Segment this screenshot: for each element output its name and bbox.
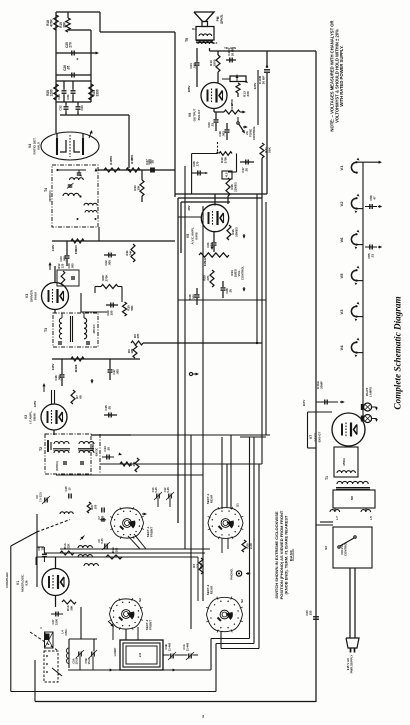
svg-text:140V: 140V xyxy=(51,245,55,252)
svg-text:22MEG: 22MEG xyxy=(234,181,238,192)
svg-text:150: 150 xyxy=(110,310,114,315)
svg-text:20 MF: 20 MF xyxy=(231,48,235,56)
svg-text:C33: C33 xyxy=(80,105,84,111)
svg-text:V7: V7 xyxy=(309,435,313,439)
svg-text:39K: 39K xyxy=(63,21,67,28)
svg-text:56K: 56K xyxy=(130,304,134,310)
svg-text:15K: 15K xyxy=(74,248,78,254)
svg-text:11K: 11K xyxy=(74,367,78,373)
svg-text:47K: 47K xyxy=(136,333,140,338)
svg-text:6V6-GT: 6V6-GT xyxy=(197,109,201,120)
svg-text:T3: T3 xyxy=(44,328,48,332)
svg-text:15: 15 xyxy=(68,487,72,490)
svg-text:30MF: 30MF xyxy=(320,381,324,389)
svg-text:56K: 56K xyxy=(70,605,74,610)
svg-text:R12: R12 xyxy=(57,263,61,268)
svg-text:C1A: C1A xyxy=(182,644,186,649)
svg-text:68: 68 xyxy=(79,395,83,399)
svg-text:C8: C8 xyxy=(37,547,41,551)
svg-text:6AV6: 6AV6 xyxy=(195,232,199,240)
svg-text:R1B: R1B xyxy=(111,547,115,552)
svg-text:BASE.: BASE. xyxy=(288,549,293,561)
svg-text:FRONT: FRONT xyxy=(149,620,153,630)
svg-text:12K: 12K xyxy=(130,348,134,353)
svg-text:L5: L5 xyxy=(369,516,373,520)
svg-text:V6: V6 xyxy=(188,113,192,117)
svg-text:V4: V4 xyxy=(339,345,344,351)
svg-text:145V: 145V xyxy=(51,364,55,371)
svg-text:.05: .05 xyxy=(107,447,111,451)
svg-text:28V: 28V xyxy=(187,205,191,210)
svg-text:.005: .005 xyxy=(58,375,62,381)
svg-text:CONTROL: CONTROL xyxy=(344,542,348,557)
svg-text:MEG: MEG xyxy=(199,562,203,569)
svg-text:30 MF: 30 MF xyxy=(262,76,266,85)
svg-text:S3: S3 xyxy=(324,546,328,550)
svg-text:V5: V5 xyxy=(339,273,344,279)
svg-text:11-460: 11-460 xyxy=(168,642,172,651)
svg-text:.01: .01 xyxy=(210,243,214,247)
svg-text:3300: 3300 xyxy=(96,89,100,96)
svg-text:S1: S1 xyxy=(236,503,240,507)
svg-text:V5: V5 xyxy=(186,234,190,238)
svg-text:100: 100 xyxy=(109,156,113,161)
svg-text:Complete Schematic Diagram: Complete Schematic Diagram xyxy=(393,296,403,409)
svg-text:(637KC): (637KC) xyxy=(56,461,59,471)
svg-text:OSC.: OSC. xyxy=(64,628,68,635)
svg-text:V3: V3 xyxy=(339,309,344,315)
svg-text:.005: .005 xyxy=(63,256,67,262)
svg-text:FRONT: FRONT xyxy=(150,527,154,537)
svg-text:C1B: C1B xyxy=(164,644,168,649)
svg-text:-6.5: -6.5 xyxy=(225,172,229,177)
svg-text:.005: .005 xyxy=(108,260,112,266)
svg-text:.05: .05 xyxy=(229,289,233,293)
svg-text:10MEG: 10MEG xyxy=(235,226,239,237)
svg-text:5-25: 5-25 xyxy=(166,487,170,493)
svg-text:285V: 285V xyxy=(187,86,191,93)
svg-text:.05: .05 xyxy=(108,406,112,410)
svg-text:3: 3 xyxy=(202,715,204,719)
svg-text:WITH RATED POWER SUPPLY.: WITH RATED POWER SUPPLY. xyxy=(339,45,344,106)
svg-text:6AU6: 6AU6 xyxy=(34,292,38,300)
svg-text:.05: .05 xyxy=(67,66,71,71)
svg-text:10K: 10K xyxy=(137,184,141,190)
svg-text:PWR.SUPPLY: PWR.SUPPLY xyxy=(350,655,354,674)
svg-text:C37: C37 xyxy=(51,619,55,624)
svg-text:C45: C45 xyxy=(64,486,68,491)
svg-text:V1: V1 xyxy=(16,581,20,585)
svg-text:R27: R27 xyxy=(90,504,94,509)
svg-text:24K: 24K xyxy=(129,249,133,255)
svg-text:15K: 15K xyxy=(130,154,134,160)
svg-text:T5: T5 xyxy=(185,38,189,42)
svg-text:5-25: 5-25 xyxy=(100,538,104,544)
svg-text:V3: V3 xyxy=(25,294,29,298)
svg-text:470K: 470K xyxy=(50,18,54,26)
svg-text:27K: 27K xyxy=(206,274,210,280)
svg-text:450Ω: 450Ω xyxy=(342,458,346,466)
svg-text:SPKR.: SPKR. xyxy=(220,14,224,24)
svg-text:.003: .003 xyxy=(222,131,226,137)
svg-text:2.0: 2.0 xyxy=(138,653,142,658)
svg-text:OUTPUT: OUTPUT xyxy=(193,109,197,122)
svg-text:BLK: BLK xyxy=(213,43,218,45)
svg-text:100: 100 xyxy=(94,504,98,509)
svg-text:270K: 270K xyxy=(223,157,227,164)
svg-text:.05: .05 xyxy=(245,168,249,172)
svg-text:.005: .005 xyxy=(116,369,120,375)
svg-text:LOOP: LOOP xyxy=(113,648,117,657)
svg-text:(637KC): (637KC) xyxy=(48,191,52,202)
svg-text:47: 47 xyxy=(373,196,377,200)
svg-text:7.5-12.5: 7.5-12.5 xyxy=(39,492,43,502)
svg-text:270K: 270K xyxy=(105,274,109,282)
svg-text:LAMPS: LAMPS xyxy=(369,387,373,397)
svg-text:117V: 117V xyxy=(302,400,306,407)
svg-text:T1: T1 xyxy=(325,476,329,480)
svg-text:56K: 56K xyxy=(268,146,272,152)
svg-text:1800: 1800 xyxy=(213,59,217,66)
svg-text:V2: V2 xyxy=(24,415,28,419)
svg-text:600 DC: 600 DC xyxy=(96,448,99,457)
svg-text:C7: C7 xyxy=(97,516,101,520)
svg-text:.005: .005 xyxy=(192,294,196,300)
svg-text:220V: 220V xyxy=(253,83,257,90)
svg-text:470K: 470K xyxy=(230,98,234,106)
svg-text:15-25: 15-25 xyxy=(87,657,91,664)
svg-text:6BA6: 6BA6 xyxy=(33,413,37,421)
svg-text:125V: 125V xyxy=(33,401,37,408)
svg-text:120: 120 xyxy=(61,263,65,268)
svg-text:.018: .018 xyxy=(193,63,197,69)
svg-text:.01: .01 xyxy=(211,123,215,127)
svg-text:BLK: BLK xyxy=(192,29,197,31)
svg-text:330: 330 xyxy=(246,91,250,96)
svg-text:C31: C31 xyxy=(66,94,70,100)
svg-text:11-460: 11-460 xyxy=(186,642,190,651)
svg-text:C30: C30 xyxy=(57,94,61,100)
svg-text:.005: .005 xyxy=(71,263,75,269)
svg-text:C32: C32 xyxy=(59,105,63,111)
svg-text:CONTROL: CONTROL xyxy=(241,266,245,281)
svg-text:M8: M8 xyxy=(350,496,354,500)
svg-text:270: 270 xyxy=(69,42,73,48)
svg-text:270: 270 xyxy=(196,161,200,166)
svg-text:COUPLER: COUPLER xyxy=(5,572,9,588)
svg-text:C20: C20 xyxy=(67,263,71,268)
svg-text:150: 150 xyxy=(309,610,313,615)
svg-text:V6: V6 xyxy=(339,237,344,243)
svg-text:V1: V1 xyxy=(339,165,344,171)
svg-text:10: 10 xyxy=(41,547,45,550)
svg-text:R1A: R1A xyxy=(63,543,67,548)
svg-text:6J6: 6J6 xyxy=(25,580,29,585)
svg-text:S2: S2 xyxy=(240,599,244,603)
svg-text:15-25: 15-25 xyxy=(75,657,79,664)
svg-text:1MEG: 1MEG xyxy=(203,257,207,266)
svg-text:.01: .01 xyxy=(371,254,375,258)
svg-text:6AL5: 6AL5 xyxy=(37,142,41,150)
svg-text:CONTROL: CONTROL xyxy=(252,126,256,141)
svg-text:V4: V4 xyxy=(28,144,32,148)
svg-text:6X5-GT: 6X5-GT xyxy=(318,431,322,442)
svg-text:455 KC: 455 KC xyxy=(92,324,96,333)
svg-text:22K: 22K xyxy=(67,543,71,548)
svg-text:1500: 1500 xyxy=(55,619,59,625)
svg-text:PHONO.: PHONO. xyxy=(230,568,234,580)
svg-text:100: 100 xyxy=(115,547,119,552)
svg-text:T2: T2 xyxy=(39,447,43,451)
svg-text:V2: V2 xyxy=(339,201,344,207)
svg-text:R1A: R1A xyxy=(66,605,70,610)
svg-text:C6: C6 xyxy=(35,495,39,499)
svg-text:L7: L7 xyxy=(335,516,339,520)
svg-text:5-25: 5-25 xyxy=(154,487,158,493)
svg-text:REAR: REAR xyxy=(210,585,214,594)
svg-text:S2: S2 xyxy=(138,598,142,602)
svg-text:1200: 1200 xyxy=(50,89,54,96)
svg-text:.05: .05 xyxy=(151,160,155,164)
svg-text:REAR: REAR xyxy=(210,494,214,503)
